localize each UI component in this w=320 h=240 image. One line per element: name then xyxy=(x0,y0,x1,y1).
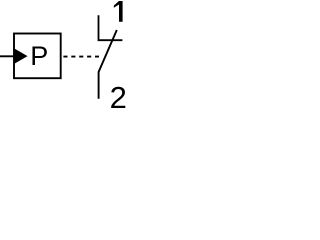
svg-text:2: 2 xyxy=(110,80,127,110)
wire: left lead into box xyxy=(0,55,14,57)
wire: dashed actuation link xyxy=(63,56,99,58)
switch lever, terminal 2 xyxy=(99,30,117,99)
switch fixed contact, terminal 1 xyxy=(99,15,123,40)
svg-text:P: P xyxy=(30,41,48,71)
pin number 1 xyxy=(114,1,123,22)
arrowhead into box xyxy=(14,48,28,64)
pressure sensor box P xyxy=(14,34,61,79)
